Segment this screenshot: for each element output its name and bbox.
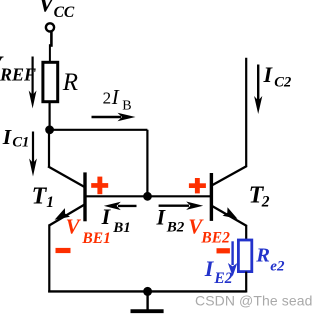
svg-text:R: R — [62, 69, 78, 96]
svg-text:I: I — [111, 85, 120, 109]
svg-text:I: I — [101, 204, 112, 229]
svg-text:C1: C1 — [12, 134, 29, 150]
svg-text:I: I — [263, 62, 274, 87]
svg-text:1: 1 — [46, 194, 54, 211]
svg-text:CSDN @The sead: CSDN @The sead — [195, 292, 313, 308]
svg-text:T: T — [32, 183, 48, 209]
svg-text:C2: C2 — [274, 74, 291, 90]
svg-text:V: V — [66, 215, 82, 239]
svg-text:B1: B1 — [112, 220, 131, 236]
svg-text:e2: e2 — [270, 259, 285, 275]
svg-text:BE1: BE1 — [81, 230, 110, 247]
svg-text:BE2: BE2 — [200, 230, 230, 247]
svg-text:2: 2 — [103, 88, 112, 107]
svg-text:I: I — [204, 256, 215, 281]
svg-text:I: I — [2, 125, 12, 149]
svg-text:E2: E2 — [213, 270, 232, 287]
svg-text:2: 2 — [261, 194, 270, 211]
svg-text:I: I — [156, 204, 167, 229]
svg-text:B: B — [122, 99, 131, 114]
svg-text:REF: REF — [0, 65, 36, 85]
svg-text:B2: B2 — [166, 219, 185, 235]
svg-text:R: R — [255, 244, 270, 266]
svg-text:CC: CC — [54, 4, 75, 21]
